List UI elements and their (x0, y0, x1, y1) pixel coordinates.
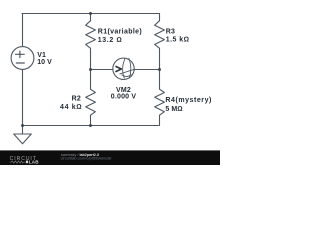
svg-text:V1: V1 (37, 52, 46, 59)
wire middle rail left (91, 69, 113, 71)
svg-text:R2: R2 (72, 96, 81, 103)
svg-text:10 V: 10 V (37, 59, 52, 66)
junction dot bottom (R2/rail) (89, 124, 92, 127)
svg-text:circuitlab.com/c/pf999xbnc8r: circuitlab.com/c/pf999xbnc8r (61, 155, 113, 160)
wire left branch bottom (V1 to bottom rail) (22, 69, 24, 125)
CircuitLab logo (10, 156, 40, 165)
svg-text:1.5 kΩ: 1.5 kΩ (166, 37, 190, 44)
wire bottom rail (22, 125, 160, 127)
wire left branch top (rail to V1) (22, 14, 24, 47)
junction dot middle right (158, 68, 161, 71)
resistor R2 (86, 70, 96, 126)
svg-text:13.2 Ω: 13.2 Ω (98, 37, 123, 44)
resistor R3 (155, 14, 165, 70)
junction dot middle left (89, 68, 92, 71)
svg-text:R4(mystery): R4(mystery) (165, 97, 212, 104)
footer credit text (61, 153, 113, 161)
resistor R4 (155, 70, 165, 126)
junction dot bottom left (ground) (21, 124, 24, 127)
wire top rail (22, 13, 160, 15)
svg-text:44 kΩ: 44 kΩ (60, 104, 82, 111)
junction dot top (R1/rail) (89, 12, 92, 15)
ground (14, 126, 32, 144)
svg-text:LAB: LAB (29, 160, 40, 165)
resistor R1 (86, 14, 96, 70)
wire middle rail right (134, 69, 159, 71)
footer bar (0, 150, 220, 165)
svg-text:R3: R3 (166, 28, 175, 35)
svg-text:5 MΩ: 5 MΩ (165, 106, 182, 113)
svg-text:R1(variable): R1(variable) (98, 28, 142, 35)
voltmeter VM2 (113, 58, 135, 79)
svg-text:0.000 V: 0.000 V (111, 94, 137, 101)
voltage source V1 (11, 47, 34, 70)
